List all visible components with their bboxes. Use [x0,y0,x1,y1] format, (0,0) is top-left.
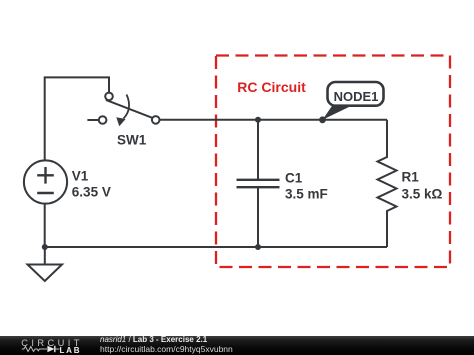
svg-text:RC Circuit: RC Circuit [237,79,306,95]
capacitor C1 [237,120,280,247]
wire: switch throw to R1 top corner [160,119,387,121]
ground [28,265,63,282]
svg-text:3.5 mF: 3.5 mF [285,186,328,201]
svg-text:LAB: LAB [60,346,82,355]
CircuitLab logo [20,338,84,355]
wire: bottom rail [45,246,387,248]
wire: ground lead [44,247,46,265]
footer text [100,336,207,344]
svg-text:V1: V1 [72,169,89,184]
svg-text:3.5 kΩ: 3.5 kΩ [402,187,443,202]
wire: V1 top to switch pole [45,77,109,161]
svg-text:SW1: SW1 [117,132,147,147]
NODE1 callout tail [323,105,351,120]
svg-text:NODE1: NODE1 [334,89,379,104]
red dashed enclosure box [216,56,450,268]
svg-text:R1: R1 [402,169,420,184]
switch SW1 [87,93,159,127]
wire: V1 bottom lead [44,204,46,247]
voltage source V1 [24,160,67,203]
footer bar [0,336,474,355]
NODE1 callout box [328,82,384,106]
svg-text:C1: C1 [285,171,303,186]
resistor R1 [378,120,397,247]
svg-text:6.35 V: 6.35 V [72,185,111,200]
junction dot at C1 bottom [255,244,261,250]
junction dot at ground rail [42,244,48,250]
junction dot at C1 top [255,117,261,123]
junction node NODE1 dot [319,116,326,123]
